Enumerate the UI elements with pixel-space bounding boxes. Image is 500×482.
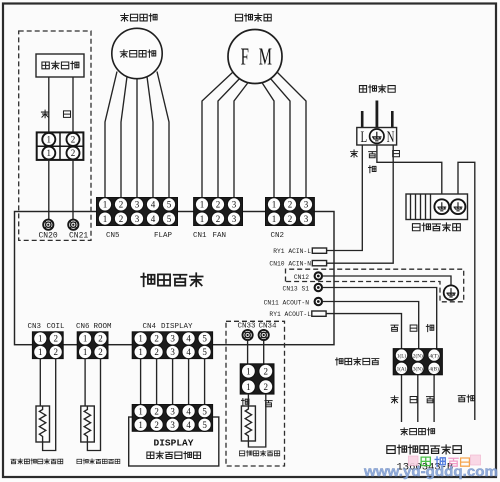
connector heater 2x2: [240, 364, 274, 394]
wire S1 to terminal col3 (red): [323, 288, 437, 349]
svg-text:www.yd-gddq.com: www.yd-gddq.com: [363, 463, 498, 479]
svg-text:1: 1: [138, 406, 143, 416]
label ROOM: [94, 323, 113, 331]
svg-text:F: F: [241, 44, 249, 70]
terminal RY1 ACOUT-L: [312, 311, 326, 316]
svg-text:3: 3: [170, 420, 175, 430]
svg-text:1: 1: [200, 214, 205, 224]
svg-text:2: 2: [98, 347, 103, 357]
label indoor fan title (kanji 室内风机): [235, 14, 271, 22]
svg-text:CN21: CN21: [69, 232, 88, 241]
label terminal board (kanji 接线端子板): [336, 358, 379, 365]
label DISPLAY: [161, 323, 193, 331]
svg-text:CN12: CN12: [294, 274, 309, 281]
svg-text:2: 2: [264, 382, 269, 392]
socket CN21: [68, 220, 78, 230]
svg-text:CN2: CN2: [271, 232, 285, 240]
svg-text:1: 1: [272, 200, 277, 210]
label wire brown (kanji 棕): [41, 110, 48, 118]
svg-text:1: 1: [138, 334, 143, 344]
svg-text:2: 2: [288, 200, 293, 210]
label power plug (kanji 电源插头): [359, 85, 395, 93]
label indoor wiring diagram sticker (kanji 室内接线图标贴): [387, 445, 461, 454]
svg-text:1: 1: [272, 214, 277, 224]
svg-text:1: 1: [47, 135, 52, 145]
svg-text:1: 1: [103, 200, 108, 210]
svg-text:1: 1: [103, 214, 108, 224]
wire CN4 pin4 to display: [188, 359, 190, 405]
label CN12: [294, 274, 309, 281]
wire CN4 pin5 to display: [204, 359, 206, 405]
wire CN6 pin1 to room sensor: [84, 359, 86, 406]
svg-text:CN1: CN1: [193, 232, 207, 240]
svg-text:CN10 ACIN-N: CN10 ACIN-N: [269, 261, 311, 268]
label to outdoor unit (kanji 至室外机): [401, 428, 435, 435]
dashed enclosure CN12 relay area: [286, 269, 464, 302]
svg-text:1: 1: [200, 200, 205, 210]
wire fan pin1: [202, 72, 233, 198]
svg-text:4: 4: [186, 406, 191, 416]
wire terminal col2 to outdoor (blue): [417, 375, 419, 422]
svg-text:1(A): 1(A): [397, 366, 407, 373]
connector display 5x2: [132, 405, 212, 432]
svg-text:2: 2: [71, 148, 76, 158]
label yellow (kanji 黄) below plug earth: [369, 152, 376, 158]
svg-text:1: 1: [83, 334, 88, 344]
label blue (kanji 蓝): [410, 396, 417, 402]
svg-text:CN13 S1: CN13 S1: [283, 285, 310, 292]
label green (kanji 绿) below yellow: [369, 166, 376, 173]
svg-text:L: L: [360, 128, 367, 146]
wire CN4 pin1 to display: [140, 359, 142, 405]
svg-text:FAN: FAN: [213, 232, 227, 240]
svg-text:5: 5: [167, 200, 172, 210]
label display board assy (kanji 显示基板组件): [147, 451, 201, 459]
wire CN33 to heater connector: [247, 341, 249, 364]
display board box: [129, 417, 219, 466]
wire CN3 pin1 to coil sensor: [39, 359, 41, 406]
label DISPLAY board: [154, 438, 194, 449]
wire heater pin1 to resistor: [247, 394, 249, 406]
socket CN13: [315, 284, 322, 291]
svg-text:FLAP: FLAP: [154, 232, 173, 240]
svg-text:5: 5: [202, 347, 207, 357]
label evaporator temp sensor (kanji 蒸发器温度传感器): [11, 459, 63, 464]
connector CN4 5x2: [132, 332, 212, 359]
svg-text:N: N: [387, 128, 395, 146]
svg-text:4: 4: [186, 334, 191, 344]
connector CN6 2x2: [77, 332, 108, 359]
svg-text:1: 1: [38, 334, 43, 344]
svg-text:2: 2: [288, 214, 293, 224]
label CN20: [39, 232, 58, 241]
svg-text:2: 2: [119, 200, 124, 210]
wire CN6 pin2 loop to sensor bottom: [87, 359, 100, 451]
svg-text:1: 1: [138, 420, 143, 430]
wire connector to CN20: [48, 160, 50, 220]
svg-text:2: 2: [216, 214, 221, 224]
label wire blue (kanji 蓝): [63, 111, 70, 118]
label COIL: [47, 323, 66, 331]
label damper motor title (kanji 风门电机): [121, 14, 157, 22]
wire CN4 pin2 to display: [156, 359, 158, 405]
socket CN34: [259, 330, 269, 340]
label RY1 ACIN-L: [273, 248, 311, 255]
svg-text:3: 3: [135, 200, 140, 210]
heater resistor element: [241, 406, 255, 441]
label indoor electric heater (kanji 室内电加热器): [239, 450, 279, 456]
label indoor evaporator (kanji 室内蒸发器): [412, 223, 460, 231]
svg-text:1: 1: [138, 347, 143, 357]
svg-text:3: 3: [170, 406, 175, 416]
svg-text:2: 2: [53, 347, 58, 357]
svg-text:4(B): 4(B): [429, 366, 439, 373]
wire ion box to connector (right): [72, 77, 74, 132]
socket CN33: [243, 330, 253, 340]
label blue (kanji 蓝) below plug N: [393, 150, 400, 156]
terminal block 3x2: [393, 349, 442, 375]
label CN3: [28, 323, 42, 331]
label part number 1360343-B: [397, 462, 454, 474]
wire terminal col1 to outdoor (brown): [401, 375, 403, 422]
wire fan pin4: [262, 83, 274, 198]
label CN4: [143, 323, 157, 331]
svg-text:RY1 ACOUT-L: RY1 ACOUT-L: [269, 311, 311, 318]
connector CN5 FLAP 5x2: [97, 198, 178, 226]
label CN33: [238, 323, 257, 331]
wire terminal col3 to outdoor (black): [433, 375, 435, 422]
label brown (kanji 棕) below plug L: [350, 150, 357, 157]
svg-text:2: 2: [98, 334, 103, 344]
label control board (kanji 控制基板): [141, 273, 202, 286]
wire damper pin2: [121, 77, 127, 198]
label FLAP: [154, 232, 173, 240]
watermark colored site glyphs: [409, 455, 481, 467]
connector CN3 2x2: [32, 332, 63, 359]
svg-text:3: 3: [304, 214, 309, 224]
svg-text:4: 4: [186, 420, 191, 430]
label FAN: [213, 232, 227, 240]
svg-text:5: 5: [167, 214, 172, 224]
label yellow (kanji 黄): [265, 401, 272, 407]
svg-text:2: 2: [154, 406, 159, 416]
dashed enclosure ion-sterilizer unit: [19, 31, 91, 240]
svg-text:2: 2: [154, 420, 159, 430]
svg-text:3: 3: [232, 214, 237, 224]
connector CN1 FAN 3x2: [194, 198, 243, 226]
fan motor FM circle: [228, 30, 282, 84]
connector CN2 3x2: [266, 198, 315, 226]
label CN5: [106, 232, 120, 240]
wire fan pin3: [234, 83, 248, 198]
label room temp sensor (kanji 室内温度传感器): [77, 459, 120, 464]
terminal CN10 ACIN-N: [312, 261, 326, 266]
wire plug earth to evaporator screw 1: [377, 145, 442, 194]
svg-text:2: 2: [154, 347, 159, 357]
indoor evaporator: [406, 194, 468, 220]
svg-text:3: 3: [135, 214, 140, 224]
label yellow-green (kanji 黄绿): [458, 395, 474, 402]
svg-text:1: 1: [246, 382, 251, 392]
label black (kanji 黑): [391, 325, 398, 331]
socket CN12: [315, 272, 322, 279]
svg-text:4: 4: [186, 347, 191, 357]
svg-text:4(T): 4(T): [429, 352, 438, 359]
svg-text:3: 3: [170, 347, 175, 357]
svg-text:DISPLAY: DISPLAY: [161, 323, 193, 331]
svg-text:1: 1: [47, 148, 52, 158]
label inside damper motor (kanji 风门电机): [120, 50, 156, 58]
svg-text:4: 4: [151, 200, 156, 210]
svg-text:ROOM: ROOM: [94, 323, 113, 331]
terminal RY1 ACIN-L: [312, 248, 326, 253]
label CN10 ACIN-N: [269, 261, 311, 268]
svg-text:3: 3: [170, 334, 175, 344]
wire plug L down to RY1 ACIN-L: [327, 145, 363, 251]
svg-text:CN5: CN5: [106, 232, 120, 240]
wire CN4 pin3 to display: [172, 359, 174, 405]
svg-text:3: 3: [232, 200, 237, 210]
svg-text:DISPLAY: DISPLAY: [154, 438, 194, 449]
damper motor M1 circle: [112, 28, 162, 78]
wire damper pin5: [157, 72, 169, 198]
svg-text:CN3: CN3: [28, 323, 42, 331]
wire damper pin4: [147, 77, 153, 198]
label CN21: [69, 232, 88, 241]
label CN11 ACOUT-N: [264, 299, 310, 306]
svg-text:4: 4: [151, 214, 156, 224]
svg-text:3: 3: [304, 200, 309, 210]
connector block ion 2x2: [37, 132, 84, 160]
watermark www.yd-gddq.com: [363, 463, 498, 479]
label ion sterilizer (kanji 离子除菌): [42, 61, 79, 69]
svg-text:5: 5: [202, 334, 207, 344]
wire fan pin2: [218, 79, 240, 198]
svg-text:RY1 ACIN-L: RY1 ACIN-L: [273, 248, 311, 255]
wire connector to CN21: [72, 160, 74, 220]
label CN13 S1: [283, 285, 310, 292]
svg-text:2: 2: [119, 214, 124, 224]
socket CN20: [43, 220, 53, 230]
socket CN11: [315, 298, 322, 305]
wire ACOUT-L to terminal col1 (black): [326, 314, 401, 349]
thermistor coil sensor: [36, 406, 50, 442]
control board outline: [15, 212, 335, 345]
label CN34: [259, 323, 278, 331]
label red (kanji 红): [426, 324, 433, 331]
svg-text:1(L): 1(L): [397, 352, 406, 359]
wire CN3 pin2 loop to sensor bottom: [43, 359, 56, 451]
svg-text:CN34: CN34: [259, 323, 278, 331]
label RY1 ACOUT-L: [269, 311, 311, 318]
svg-text:2: 2: [154, 334, 159, 344]
wire ion box to connector (left): [48, 77, 50, 132]
svg-text:1: 1: [246, 366, 251, 376]
svg-text:2(N): 2(N): [413, 352, 423, 359]
thermistor room sensor: [81, 406, 95, 442]
label red (kanji 红): [242, 398, 249, 405]
wire CN12 to earth: [323, 276, 452, 285]
svg-text:CN4: CN4: [143, 323, 157, 331]
label black (kanji 黑): [426, 397, 433, 403]
svg-text:M: M: [259, 44, 272, 70]
svg-text:CN11 ACOUT-N: CN11 ACOUT-N: [264, 299, 310, 306]
ion sterilizer box: [36, 54, 84, 77]
earth symbol chassis: [444, 285, 459, 300]
svg-text:5: 5: [202, 420, 207, 430]
wire heater pin2 loop to resistor bottom: [248, 394, 265, 447]
svg-text:2: 2: [264, 366, 269, 376]
svg-text:5: 5: [202, 406, 207, 416]
wire CN34 to heater connector: [263, 341, 265, 364]
wire damper pin3: [136, 79, 138, 198]
wire ACOUT-N to terminal col2 (blue): [323, 302, 419, 349]
wire evaporator screw 2 to yellow-green drop: [458, 162, 475, 420]
label brown (kanji 棕): [391, 396, 398, 403]
wire plug N down to CN10 ACIN-N: [327, 145, 394, 263]
label CN2: [271, 232, 285, 240]
label CN6: [76, 323, 90, 331]
svg-text:2: 2: [216, 200, 221, 210]
svg-text:3(N): 3(N): [413, 366, 423, 373]
dashed enclosure heater: [226, 321, 285, 466]
wire fan pin5: [271, 79, 291, 198]
label blue (kanji 蓝): [410, 325, 417, 331]
svg-text:2: 2: [71, 135, 76, 145]
power plug body with prongs: [357, 101, 397, 146]
wire fan pin6: [277, 72, 306, 198]
svg-text:1: 1: [83, 347, 88, 357]
svg-text:1: 1: [38, 347, 43, 357]
svg-text:CN6: CN6: [76, 323, 90, 331]
label CN1: [193, 232, 207, 240]
svg-text:2: 2: [53, 334, 58, 344]
wire damper pin1: [105, 72, 117, 198]
svg-text:COIL: COIL: [47, 323, 66, 331]
svg-text:CN20: CN20: [39, 232, 58, 241]
